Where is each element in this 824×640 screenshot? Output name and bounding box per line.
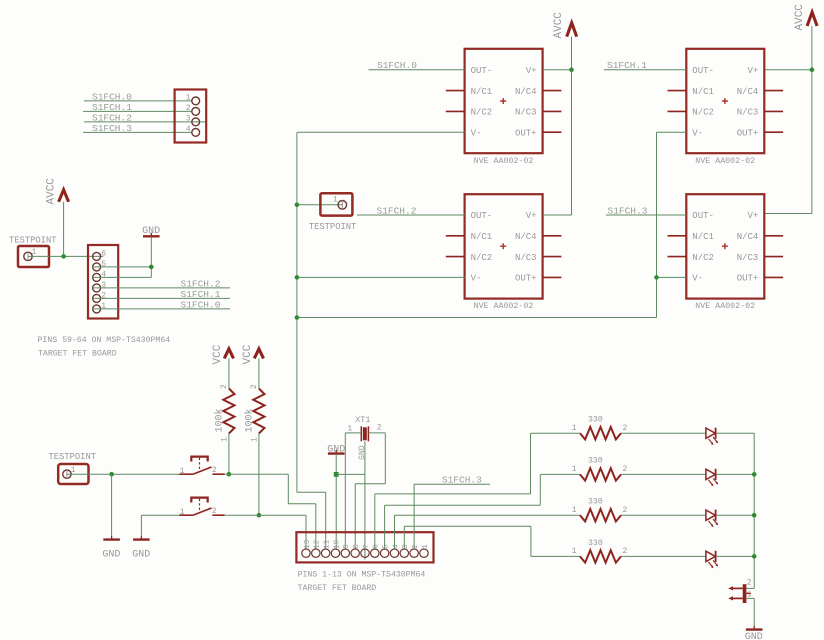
svg-text:OUT-: OUT- <box>471 66 493 76</box>
wire AVCC right rail into U4 V+ <box>765 213 812 215</box>
switch S2 pin 1 stub <box>179 514 193 516</box>
svg-text:N/C1: N/C1 <box>471 87 493 97</box>
wire S1 into JP3 pin 12 <box>315 504 317 549</box>
U3 polarity + mark <box>722 98 728 104</box>
junction TP3/GND drop <box>109 472 114 477</box>
resistor R2 100k zigzag <box>253 389 264 434</box>
svg-text:OUT-: OUT- <box>471 211 493 221</box>
svg-text:2: 2 <box>412 544 420 549</box>
TP2 pad circle <box>338 201 347 210</box>
svg-text:GND: GND <box>102 550 120 561</box>
wire R3 to LED1 <box>621 432 706 434</box>
wire JP4 pin 1 to GND <box>746 597 754 599</box>
wire net S1FCH.0 to JP1 pin 1 <box>84 100 192 102</box>
wire pin 4 run into R5 <box>395 514 581 516</box>
op-amp/GMR sensor U1 NVE AA002-02 body <box>465 49 543 153</box>
svg-text:10: 10 <box>333 539 341 549</box>
switch S1 actuator bar <box>191 457 207 462</box>
svg-text:TESTPOINT: TESTPOINT <box>49 452 97 462</box>
wire JP3 pin 2 up <box>413 484 415 548</box>
wire staircase down to R6 row <box>530 526 532 556</box>
wire down to GND bottom right <box>753 598 755 626</box>
wire S1 staircase right <box>288 503 316 505</box>
svg-text:OUT+: OUT+ <box>515 128 537 138</box>
U4 pin stub N/C4 <box>764 235 783 237</box>
JP3 pad 13 <box>302 549 310 557</box>
wire GND down to JP2 pins <box>150 237 152 278</box>
svg-text:V+: V+ <box>526 66 537 76</box>
svg-text:AVCC: AVCC <box>794 4 806 31</box>
LED1 light arrows <box>709 437 718 444</box>
JP3 pad 10 <box>331 549 339 557</box>
wire pin 5 run right <box>385 504 541 506</box>
wire pin 3 run right <box>404 525 531 527</box>
svg-text:S1FCH.1: S1FCH.1 <box>92 102 132 113</box>
wire net S1FCH.2 to JP1 pin 3 <box>84 121 206 123</box>
junction bus / V- run <box>295 315 300 320</box>
svg-text:OUT+: OUT+ <box>737 128 759 138</box>
svg-text:1: 1 <box>71 466 76 475</box>
wire AVCC to TP1 junction <box>63 202 65 257</box>
svg-text:NVE AA002-02: NVE AA002-02 <box>695 302 755 311</box>
svg-text:1: 1 <box>422 544 430 549</box>
TP3 pad circle <box>63 470 71 478</box>
svg-text:8: 8 <box>353 544 361 549</box>
JP3 pad 2 <box>410 549 418 557</box>
wire TP3 to switch S1 <box>67 473 179 475</box>
wire LED3 to cathode bus <box>716 514 754 516</box>
svg-text:GND: GND <box>745 632 763 640</box>
svg-text:1: 1 <box>333 196 338 205</box>
svg-text:TARGET FET BOARD: TARGET FET BOARD <box>298 584 377 593</box>
U1 pin stub N/C1 <box>446 90 465 92</box>
JP2 pad 1 <box>93 305 101 313</box>
svg-text:2: 2 <box>212 466 217 475</box>
svg-text:1: 1 <box>572 506 577 515</box>
switch S2 actuator bar <box>191 498 207 503</box>
wire XT1 pin 2 into JP3 pin 8 <box>354 484 356 549</box>
svg-text:330: 330 <box>588 498 603 507</box>
wire R4 to LED2 <box>621 473 706 475</box>
junction bus LED3 <box>752 513 757 518</box>
wire net S1FCH.1 to JP1 pin 2 <box>83 110 192 112</box>
svg-text:NVE AA002-02: NVE AA002-02 <box>474 157 534 166</box>
junction GND/pin5 <box>149 265 154 270</box>
svg-text:N/C2: N/C2 <box>692 253 714 263</box>
wire net S1FCH.3 to U4 OUT- <box>606 214 686 216</box>
TP3 pin cross <box>66 470 68 479</box>
svg-text:V-: V- <box>692 128 703 138</box>
svg-text:3: 3 <box>402 544 410 549</box>
wire VCC to R2 <box>258 358 260 388</box>
svg-text:V+: V+ <box>747 211 758 221</box>
wire stub net S1FCH.0 from JP2 pin 1 <box>92 308 230 310</box>
GND symbol near JP2 <box>143 235 160 237</box>
supply AVCC <box>807 12 817 26</box>
svg-text:330: 330 <box>588 539 603 548</box>
junction R2 / switch S2 net <box>257 513 262 518</box>
svg-text:3: 3 <box>101 281 106 290</box>
svg-text:N/C1: N/C1 <box>471 232 493 242</box>
svg-text:N/C2: N/C2 <box>471 108 493 118</box>
svg-text:TESTPOINT: TESTPOINT <box>309 222 357 232</box>
svg-text:S1FCH.3: S1FCH.3 <box>92 123 132 134</box>
svg-text:V-: V- <box>692 274 703 284</box>
ground GND1 <box>103 538 120 540</box>
JP1 pad 4 <box>192 129 200 137</box>
wire into U4 V- <box>657 276 687 278</box>
wire staircase up to R4 row <box>539 474 541 505</box>
JP3 pad 1 <box>420 549 428 557</box>
wire R2 to switch S2 net <box>258 434 260 516</box>
wire GND into JP3 pin 10 <box>335 454 337 549</box>
U3 pin stub OUT+ <box>764 131 783 133</box>
wire V- run at y=317.5 <box>297 317 657 319</box>
U2 pin stub OUT+ <box>543 276 562 278</box>
svg-text:5: 5 <box>101 260 106 269</box>
svg-text:N/C4: N/C4 <box>737 87 759 97</box>
JP3 pad 9 <box>341 549 349 557</box>
JP3 pad 11 <box>321 549 329 557</box>
svg-text:S1FCH.0: S1FCH.0 <box>92 91 132 102</box>
wire LED4 to cathode bus <box>716 555 754 557</box>
connector JP1 body <box>175 90 207 143</box>
op-amp/GMR sensor U2 NVE AA002-02 body <box>465 194 543 298</box>
JP4 pin 1 lead <box>733 597 743 599</box>
wire S2 to JP3 pin 13 <box>225 514 306 516</box>
svg-text:S1FCH.3: S1FCH.3 <box>608 205 648 216</box>
U4 pin stub N/C3 <box>764 256 783 258</box>
svg-text:AVCC: AVCC <box>553 12 565 39</box>
junction bus / TP2 <box>295 203 300 208</box>
svg-text:S1FCH.2: S1FCH.2 <box>92 112 132 123</box>
wire into U3 V- <box>657 131 687 133</box>
wire JP3 pin 3 up <box>403 526 405 548</box>
connector JP2 body (pins 59-64) <box>88 245 118 319</box>
svg-text:1: 1 <box>101 302 106 311</box>
LED3 light arrows <box>709 519 718 526</box>
supply VCC <box>224 349 233 359</box>
svg-text:2: 2 <box>747 578 752 587</box>
TP1 pad circle <box>24 252 32 260</box>
wire U2 V- to vertical bus <box>297 276 465 278</box>
JP4 middle stub <box>746 592 751 594</box>
svg-text:100k: 100k <box>243 408 255 432</box>
U3 pin stub N/C4 <box>764 90 783 92</box>
supply AVCC <box>567 23 577 37</box>
wire AVCC rail vertical (left column) <box>571 37 573 215</box>
JP1 pad 2 <box>192 108 200 116</box>
crystal XT1 right plate <box>367 426 369 441</box>
svg-text:TARGET FET BOARD: TARGET FET BOARD <box>38 350 117 359</box>
wire bus into JP4 pin 2 <box>746 587 754 589</box>
resistor R6 330 zigzag <box>580 550 621 562</box>
JP4 pin 2 lead <box>733 587 743 589</box>
svg-text:OUT+: OUT+ <box>515 274 537 284</box>
U4 pin stub N/C1 <box>668 235 687 237</box>
wire case net into JP3 pin 7 <box>364 474 366 559</box>
switch S1 pin 1 stub <box>179 473 193 475</box>
JP2 pad 6 <box>93 252 101 260</box>
svg-text:4: 4 <box>186 125 191 134</box>
svg-text:V-: V- <box>471 274 482 284</box>
wire stub net S1FCH.1 from JP2 pin 2 <box>92 297 230 299</box>
svg-text:GND: GND <box>142 226 160 237</box>
U3 pin stub N/C3 <box>764 110 783 112</box>
wire into R6 <box>531 555 580 557</box>
svg-text:XT1: XT1 <box>355 415 370 425</box>
svg-text:N/C1: N/C1 <box>692 232 714 242</box>
U2 pin stub N/C2 <box>446 256 465 258</box>
svg-text:12: 12 <box>314 540 322 549</box>
svg-text:1: 1 <box>572 547 577 556</box>
wire U1 V+ to AVCC rail <box>543 69 572 71</box>
wire net S1FCH.2 to U2 OUT- <box>357 214 465 216</box>
junction bus LED4 <box>752 554 757 559</box>
U3 pin stub N/C2 <box>668 110 687 112</box>
U3 pin stub N/C1 <box>668 90 687 92</box>
svg-text:S1FCH.2: S1FCH.2 <box>181 278 221 289</box>
LED2 light arrows <box>709 478 718 485</box>
svg-text:TESTPOINT: TESTPOINT <box>9 236 57 246</box>
switch S1 pin 2 stub <box>212 473 224 475</box>
svg-text:NVE AA002-02: NVE AA002-02 <box>695 157 755 166</box>
svg-text:330: 330 <box>588 416 603 425</box>
svg-text:PINS 1-13 ON MSP-TS430PM64: PINS 1-13 ON MSP-TS430PM64 <box>298 570 426 579</box>
svg-text:2: 2 <box>623 547 628 556</box>
wire vertical to U3 V- <box>656 132 658 317</box>
svg-text:4: 4 <box>392 544 400 549</box>
supply AVCC <box>59 190 69 202</box>
testpoint TP2 body <box>320 193 352 215</box>
JP2 pad 3 <box>93 284 101 292</box>
svg-text:2: 2 <box>623 465 628 474</box>
LED4 light arrows <box>709 560 718 567</box>
wire U1 V- to vertical bus <box>297 131 465 133</box>
JP3 pad 12 <box>312 549 320 557</box>
svg-text:1: 1 <box>180 467 185 476</box>
wire into R4 <box>540 473 580 475</box>
TP2 pin cross <box>341 200 343 209</box>
wire LED cathode bus vertical <box>753 433 755 588</box>
wire VCC to R1 <box>228 358 230 388</box>
svg-text:N/C3: N/C3 <box>515 253 537 263</box>
wire net S1FCH.3 to JP1 pin 4 <box>83 131 192 133</box>
svg-text:100k: 100k <box>213 408 225 432</box>
op-amp/GMR sensor U3 NVE AA002-02 body <box>686 49 764 153</box>
junction TP1/AVCC/JP2 <box>61 254 66 259</box>
wire net S1FCH.0 to U1 OUT- <box>369 69 465 71</box>
JP2 pad 4 <box>93 273 101 281</box>
switch S2 contact blade <box>193 508 212 515</box>
svg-text:4: 4 <box>101 271 106 280</box>
supply VCC <box>254 349 263 359</box>
wire S2 drop into pin 13 <box>305 515 307 548</box>
U1 pin stub N/C2 <box>446 110 465 112</box>
switch S2 pin 2 stub <box>212 514 224 516</box>
U1 pin stub N/C4 <box>543 90 562 92</box>
svg-text:1: 1 <box>220 437 229 442</box>
crystal XT1 case pin vertical <box>364 441 366 474</box>
junction bus LED2 <box>752 472 757 477</box>
svg-text:1: 1 <box>180 508 185 517</box>
wire crystal case to GND junction <box>336 473 365 475</box>
wire down to GND 1 <box>111 474 113 536</box>
svg-text:S1FCH.0: S1FCH.0 <box>181 299 221 310</box>
svg-text:7: 7 <box>363 544 371 549</box>
svg-text:N/C2: N/C2 <box>471 253 493 263</box>
svg-text:2: 2 <box>623 506 628 515</box>
testpoint TP1 body <box>18 246 49 267</box>
wire staircase up to R3 row <box>530 433 532 494</box>
junction square GND / crystal case <box>334 472 339 477</box>
svg-text:S1FCH.3: S1FCH.3 <box>442 475 482 486</box>
JP4 pin 2 arrowhead <box>728 586 733 590</box>
svg-text:9: 9 <box>343 544 351 549</box>
JP4 pin 1 arrowhead <box>728 596 733 600</box>
svg-text:2: 2 <box>220 384 229 389</box>
LED2 cathode bar <box>715 469 717 480</box>
wire JP3 pin 4 up <box>394 515 396 548</box>
wire into R3 <box>531 432 581 434</box>
connector JP3 body (pins 1-13) <box>296 532 433 562</box>
svg-text:2: 2 <box>212 507 217 516</box>
U4 pin stub OUT+ <box>764 276 783 278</box>
svg-text:OUT+: OUT+ <box>737 274 759 284</box>
svg-text:NVE AA002-02: NVE AA002-02 <box>474 302 534 311</box>
switch S2 actuator link dashed <box>199 499 201 512</box>
JP2 pad 2 <box>93 294 101 302</box>
svg-text:N/C2: N/C2 <box>692 108 714 118</box>
wire R1 to switch net <box>228 434 230 475</box>
wire AVCC right rail vertical <box>811 26 813 214</box>
svg-text:N/C4: N/C4 <box>515 87 537 97</box>
wire JP2 pin 5 to GND net <box>92 266 151 268</box>
resistor R3 330 zigzag <box>580 427 621 439</box>
svg-text:2: 2 <box>186 104 191 113</box>
wire JP2 pin 4 to GND net <box>92 276 151 278</box>
svg-text:VCC: VCC <box>242 344 254 364</box>
svg-text:V-: V- <box>471 128 482 138</box>
U2 polarity + mark <box>500 243 506 249</box>
wire S1 to staircase <box>225 473 289 475</box>
JP3 pad 8 <box>351 549 359 557</box>
switch S1 contact blade <box>193 467 212 474</box>
svg-text:GND: GND <box>132 550 150 561</box>
ground GND2 <box>133 538 150 540</box>
junction U4 V- tee <box>654 275 659 280</box>
crystal XT1 left plate <box>360 426 362 441</box>
JP3 pad 3 <box>400 549 408 557</box>
LED LED4 diode symbol <box>706 551 715 561</box>
wire AVCC rail into U2 V+ <box>543 214 572 216</box>
ground GND bottom right <box>746 628 763 630</box>
wire stub net S1FCH.3 <box>414 483 490 485</box>
wire R6 to LED4 <box>621 555 706 557</box>
wire U3 V+ to AVCC rail right <box>765 69 812 71</box>
JP1 pad 1 <box>192 97 200 105</box>
svg-text:1: 1 <box>186 94 191 103</box>
svg-text:S1FCH.0: S1FCH.0 <box>377 60 417 71</box>
svg-text:N/C4: N/C4 <box>515 232 537 242</box>
svg-text:6: 6 <box>101 250 106 259</box>
wire XT1 pin 1 left <box>345 432 361 434</box>
wire net S1FCH.1 to U3 OUT- <box>604 69 686 71</box>
svg-text:5: 5 <box>383 544 391 549</box>
op-amp/GMR sensor U4 NVE AA002-02 body <box>686 194 764 298</box>
svg-text:2: 2 <box>101 292 106 301</box>
U2 pin stub N/C1 <box>446 235 465 237</box>
resistor R5 330 zigzag <box>580 509 621 521</box>
svg-text:V+: V+ <box>526 211 537 221</box>
svg-text:3: 3 <box>186 115 191 124</box>
wire R5 to LED3 <box>621 514 706 516</box>
wire V- bus into JP3 pin 11 <box>325 492 327 548</box>
JP2 pad 5 <box>93 263 101 271</box>
svg-text:1: 1 <box>347 424 352 433</box>
wire LED2 to cathode bus <box>716 473 754 475</box>
wire TP2 to vertical bus <box>297 204 342 206</box>
U1 pin stub N/C3 <box>543 110 562 112</box>
resistor R1 100k zigzag <box>223 389 234 434</box>
junction R1 / switch S1 net <box>227 472 232 477</box>
LED3 cathode bar <box>715 510 717 521</box>
JP3 pad 5 <box>380 549 388 557</box>
svg-text:V+: V+ <box>747 66 758 76</box>
svg-text:11: 11 <box>324 539 332 549</box>
wire XT1 pin 2 left jog <box>355 483 385 485</box>
crystal XT1 body rect <box>363 427 367 440</box>
svg-text:AVCC: AVCC <box>46 178 58 205</box>
wire XT1 pin 2 right <box>368 432 385 434</box>
svg-text:1: 1 <box>572 465 577 474</box>
wire V- bus corner to pin 11 <box>297 491 326 493</box>
wire stub net S1FCH.2 from JP2 pin 3 <box>92 287 230 289</box>
junction AVCC right / U3 V+ <box>810 68 815 73</box>
U1 polarity + mark <box>500 98 506 104</box>
LED LED2 diode symbol <box>706 469 715 479</box>
connector JP4 body bar <box>743 584 747 603</box>
svg-text:1: 1 <box>250 437 259 442</box>
wire JP3 pin 6 up <box>374 494 376 549</box>
U2 pin stub N/C3 <box>543 256 562 258</box>
svg-text:N/C1: N/C1 <box>692 87 714 97</box>
U4 pin stub N/C2 <box>668 256 687 258</box>
wire TP1 to JP2 pin 6 <box>28 255 103 257</box>
U4 polarity + mark <box>722 243 728 249</box>
svg-text:330: 330 <box>588 457 603 466</box>
svg-text:S1FCH.1: S1FCH.1 <box>181 289 221 300</box>
svg-text:2: 2 <box>250 384 259 389</box>
U2 pin stub N/C4 <box>543 235 562 237</box>
svg-text:2: 2 <box>623 424 628 433</box>
svg-text:S1FCH.1: S1FCH.1 <box>607 60 647 71</box>
svg-text:PINS 59-64 ON MSP-TS430PM64: PINS 59-64 ON MSP-TS430PM64 <box>38 336 171 345</box>
LED LED3 diode symbol <box>706 510 715 520</box>
switch S1 actuator link dashed <box>199 458 201 471</box>
svg-text:GND: GND <box>358 445 367 460</box>
wire LED1 to cathode bus <box>716 432 754 434</box>
U1 pin stub OUT+ <box>543 131 562 133</box>
LED4 cathode bar <box>715 551 717 562</box>
resistor R4 330 zigzag <box>580 468 621 480</box>
svg-text:VCC: VCC <box>212 344 224 364</box>
JP3 pad 6 <box>371 549 379 557</box>
svg-text:N/C4: N/C4 <box>737 232 759 242</box>
wire JP3 pin 5 up <box>384 505 386 548</box>
svg-text:N/C3: N/C3 <box>737 253 759 263</box>
junction bus / U2 V- <box>295 275 300 280</box>
